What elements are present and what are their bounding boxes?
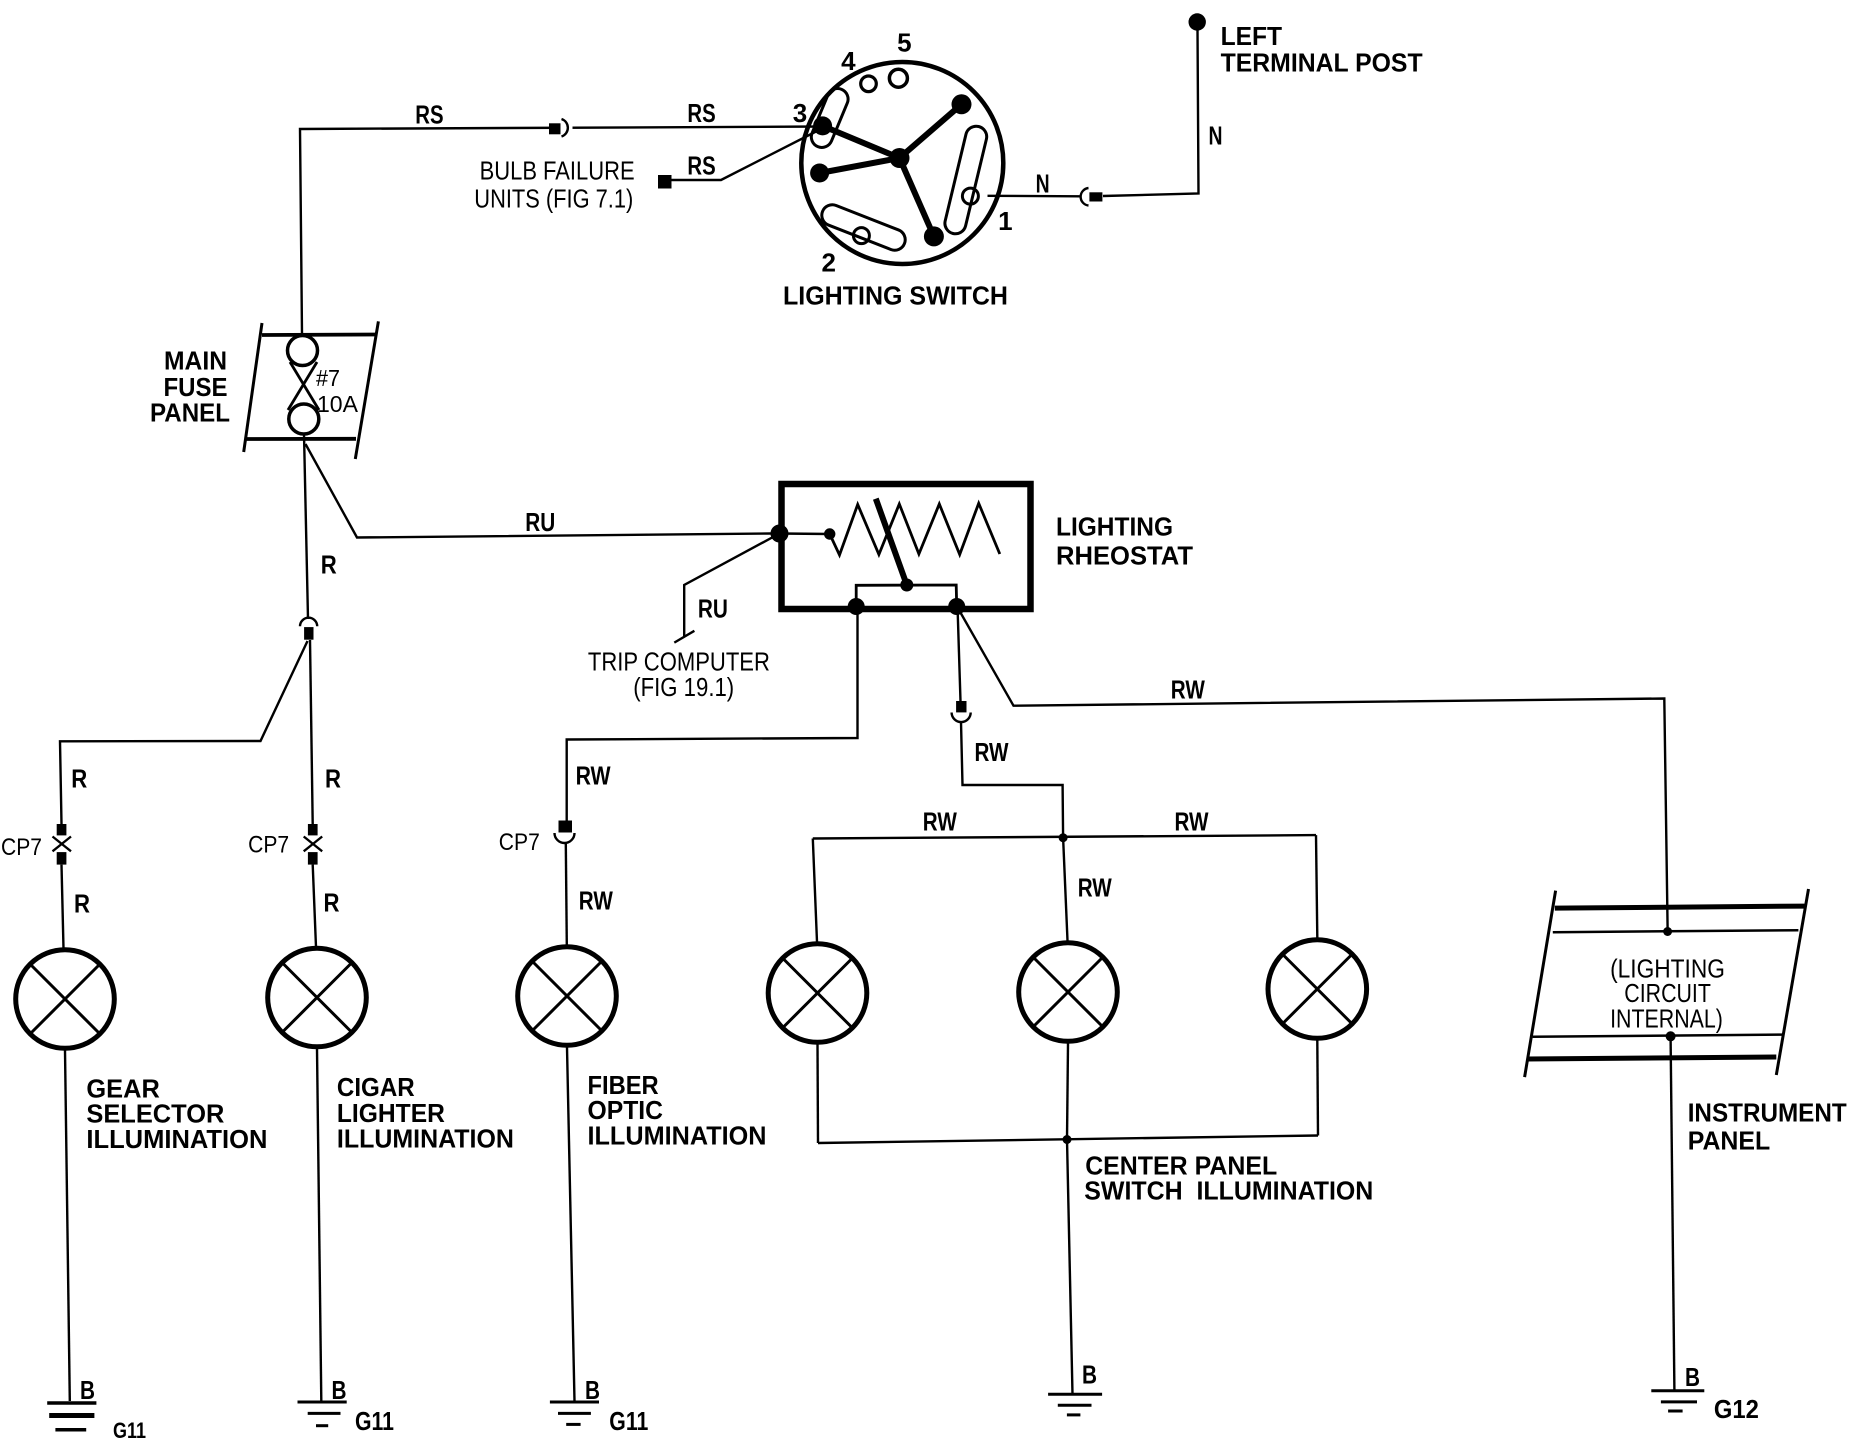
- connector CP7 gear: [53, 824, 72, 865]
- value label #7 10A: [316, 365, 359, 417]
- svg-text:#7: #7: [316, 365, 340, 391]
- ground G11 fiber: [550, 1402, 599, 1424]
- wire rheostat internal feed: [780, 532, 830, 535]
- svg-text:R: R: [71, 764, 87, 794]
- label FIBER OPTIC ILLUMINATION: [588, 1070, 767, 1151]
- svg-text:MAIN: MAIN: [164, 346, 227, 376]
- lamp cigar lighter illumination: [268, 948, 367, 1047]
- wire B instrument panel to ground: [1671, 1038, 1675, 1390]
- bulb failure units terminal: [658, 175, 672, 189]
- svg-text:RW: RW: [1078, 873, 1112, 903]
- svg-text:RS: RS: [415, 99, 443, 129]
- switch hole 5: [889, 69, 907, 87]
- svg-text:PANEL: PANEL: [1688, 1126, 1771, 1156]
- svg-text:LIGHTING: LIGHTING: [1056, 512, 1173, 542]
- svg-text:10A: 10A: [317, 391, 359, 417]
- svg-text:LEFT: LEFT: [1221, 21, 1283, 51]
- rheostat terminal bottom left: [848, 598, 865, 615]
- connector below fuse: [300, 618, 317, 640]
- lamp center panel middle: [1019, 943, 1118, 1042]
- switch contact dot left: [810, 164, 829, 183]
- svg-text:R: R: [325, 764, 341, 794]
- lamp gear selector illumination: [16, 950, 115, 1049]
- switch rotor hub: [890, 148, 910, 168]
- connector on wire N: [1081, 188, 1103, 206]
- wire right lamp to bottom bus: [1316, 1041, 1319, 1136]
- label CIGAR LIGHTER ILLUMINATION: [337, 1072, 514, 1154]
- connector RW center: [952, 701, 971, 722]
- wire R to cigar chain: [310, 640, 313, 824]
- terminal post LEFT TERMINAL POST: [1189, 13, 1206, 30]
- instrument panel outline: [1525, 889, 1809, 1077]
- label LEFT TERMINAL POST: [1221, 21, 1423, 78]
- svg-text:LIGHTING SWITCH: LIGHTING SWITCH: [783, 281, 1008, 311]
- switch hole 2: [853, 228, 869, 244]
- main fuse panel outline: [244, 321, 379, 459]
- svg-text:BULB FAILURE: BULB FAILURE: [480, 156, 635, 186]
- svg-text:RW: RW: [1175, 807, 1209, 837]
- rheostat wiper: [876, 499, 914, 592]
- lamp center panel left: [768, 944, 867, 1043]
- svg-text:ILLUMINATION: ILLUMINATION: [588, 1121, 767, 1151]
- svg-text:3: 3: [793, 98, 807, 128]
- switch hole 1: [962, 188, 978, 204]
- wire RU fuse to rheostat: [306, 444, 772, 538]
- switch pin 3 contact dot: [813, 116, 832, 135]
- switch contact dot upper right: [952, 94, 972, 114]
- label LIGHTING CIRCUIT INTERNAL: [1610, 954, 1725, 1034]
- rheostat terminal left: [771, 525, 789, 543]
- wire left lamp to bottom bus: [816, 1045, 819, 1144]
- svg-text:RW: RW: [1171, 675, 1205, 705]
- rheostat terminal bottom right: [948, 598, 965, 615]
- svg-text:(FIG 19.1): (FIG 19.1): [633, 672, 734, 702]
- center panel bus bottom: [818, 1136, 1318, 1144]
- center panel bus top: [813, 835, 1316, 838]
- svg-text:RW: RW: [975, 737, 1009, 767]
- svg-text:CP7: CP7: [1, 834, 42, 861]
- svg-text:G11: G11: [113, 1418, 146, 1440]
- junction bus top: [1059, 833, 1068, 842]
- wire drop to right lamp: [1316, 835, 1317, 937]
- node instrument panel top: [1663, 927, 1672, 936]
- rheostat bracket: [856, 585, 957, 606]
- svg-text:B: B: [1685, 1362, 1700, 1392]
- switch slot upper-left: [808, 85, 851, 150]
- svg-text:R: R: [74, 889, 90, 919]
- svg-text:RU: RU: [525, 507, 555, 537]
- svg-text:2: 2: [821, 248, 835, 278]
- wire R to gear chain: [60, 641, 308, 824]
- connector CP7 fiber: [555, 821, 575, 844]
- svg-text:G11: G11: [355, 1406, 394, 1436]
- label BULB FAILURE UNITS: [474, 156, 634, 214]
- ground G12 instrument: [1651, 1391, 1704, 1411]
- label GEAR SELECTOR ILLUMINATION: [86, 1073, 267, 1154]
- svg-text:INTERNAL): INTERNAL): [1610, 1004, 1723, 1034]
- wire B fiber to ground: [567, 1048, 575, 1402]
- wire R cigar to lamp: [313, 865, 316, 947]
- lamp fiber optic illumination: [518, 947, 617, 1046]
- svg-text:4: 4: [841, 46, 856, 76]
- label MAIN FUSE PANEL: [150, 346, 230, 428]
- wire RW long to instrument panel: [959, 610, 1668, 928]
- lighting switch body: [801, 62, 1003, 264]
- wire middle lamp to bottom bus: [1067, 1044, 1068, 1140]
- ground G11 gear: [47, 1403, 96, 1430]
- switch contact dot bottom: [924, 226, 944, 246]
- wire N from terminal post: [1103, 29, 1199, 196]
- rheostat resistive element: [824, 503, 1000, 555]
- svg-text:B: B: [80, 1375, 95, 1405]
- label CENTER PANEL SWITCH ILLUMINATION: [1084, 1151, 1373, 1206]
- switch rotor spokes: [820, 104, 962, 236]
- wire B center panel to ground: [1067, 1140, 1073, 1395]
- svg-text:ILLUMINATION: ILLUMINATION: [337, 1124, 514, 1154]
- svg-text:G11: G11: [609, 1406, 648, 1436]
- wire B gear to ground: [65, 1051, 70, 1402]
- svg-text:5: 5: [897, 28, 911, 58]
- svg-text:PANEL: PANEL: [150, 398, 230, 428]
- wire R gear to lamp: [62, 865, 64, 949]
- node instrument panel bottom: [1666, 1031, 1676, 1041]
- connector CP7 cigar: [304, 824, 323, 865]
- ground center panel: [1048, 1394, 1102, 1415]
- svg-text:CP7: CP7: [499, 829, 540, 856]
- wire R below fuse: [304, 434, 308, 619]
- wire RW rheostat down: [958, 606, 961, 701]
- svg-text:RHEOSTAT: RHEOSTAT: [1056, 540, 1193, 570]
- svg-text:N: N: [1036, 169, 1050, 199]
- label INSTRUMENT PANEL: [1688, 1097, 1847, 1155]
- fuse 7: [288, 336, 320, 435]
- svg-text:RS: RS: [687, 98, 715, 128]
- svg-text:1: 1: [998, 206, 1012, 236]
- svg-text:RW: RW: [576, 761, 611, 791]
- svg-text:UNITS (FIG 7.1): UNITS (FIG 7.1): [474, 184, 633, 214]
- wire RW to center panel bus: [961, 722, 1063, 838]
- lighting rheostat box: [782, 484, 1031, 609]
- wire drop to left lamp: [813, 839, 817, 942]
- wire RS branch to bulb failure units: [672, 130, 820, 180]
- wire RW fiber to lamp: [566, 844, 567, 946]
- wire RW rheostat to fiber chain: [567, 606, 858, 824]
- lamp center panel right: [1268, 940, 1367, 1039]
- svg-text:B: B: [1082, 1360, 1097, 1390]
- svg-text:R: R: [324, 888, 340, 918]
- switch slot right: [943, 124, 989, 236]
- svg-text:RU: RU: [698, 594, 728, 624]
- svg-text:N: N: [1209, 121, 1223, 151]
- svg-text:RW: RW: [923, 807, 957, 837]
- ground G11 cigar: [298, 1402, 347, 1426]
- svg-text:G12: G12: [1714, 1394, 1759, 1424]
- switch hole 4: [861, 76, 877, 92]
- svg-text:TERMINAL POST: TERMINAL POST: [1221, 48, 1423, 78]
- connector on wire RS: [549, 119, 573, 137]
- svg-text:ILLUMINATION: ILLUMINATION: [86, 1124, 267, 1154]
- svg-text:RS: RS: [687, 151, 715, 181]
- svg-text:CP7: CP7: [248, 832, 289, 859]
- wire drop to middle lamp: [1063, 838, 1067, 941]
- switch slot bottom: [819, 202, 909, 254]
- wire B cigar to ground: [317, 1049, 321, 1401]
- svg-text:INSTRUMENT: INSTRUMENT: [1688, 1097, 1847, 1127]
- label LIGHTING RHEOSTAT: [1056, 512, 1193, 571]
- label TRIP COMPUTER (FIG 19.1): [588, 647, 770, 703]
- wire N switch pin1 to connector: [988, 195, 1080, 198]
- wire RU to trip computer: [674, 534, 779, 643]
- svg-text:R: R: [321, 550, 337, 580]
- wire RS switch pin3 to fuse: [300, 127, 824, 335]
- svg-text:SWITCH ILLUMINATION: SWITCH ILLUMINATION: [1084, 1176, 1373, 1206]
- svg-text:RW: RW: [579, 886, 613, 916]
- junction bus bottom: [1063, 1135, 1072, 1144]
